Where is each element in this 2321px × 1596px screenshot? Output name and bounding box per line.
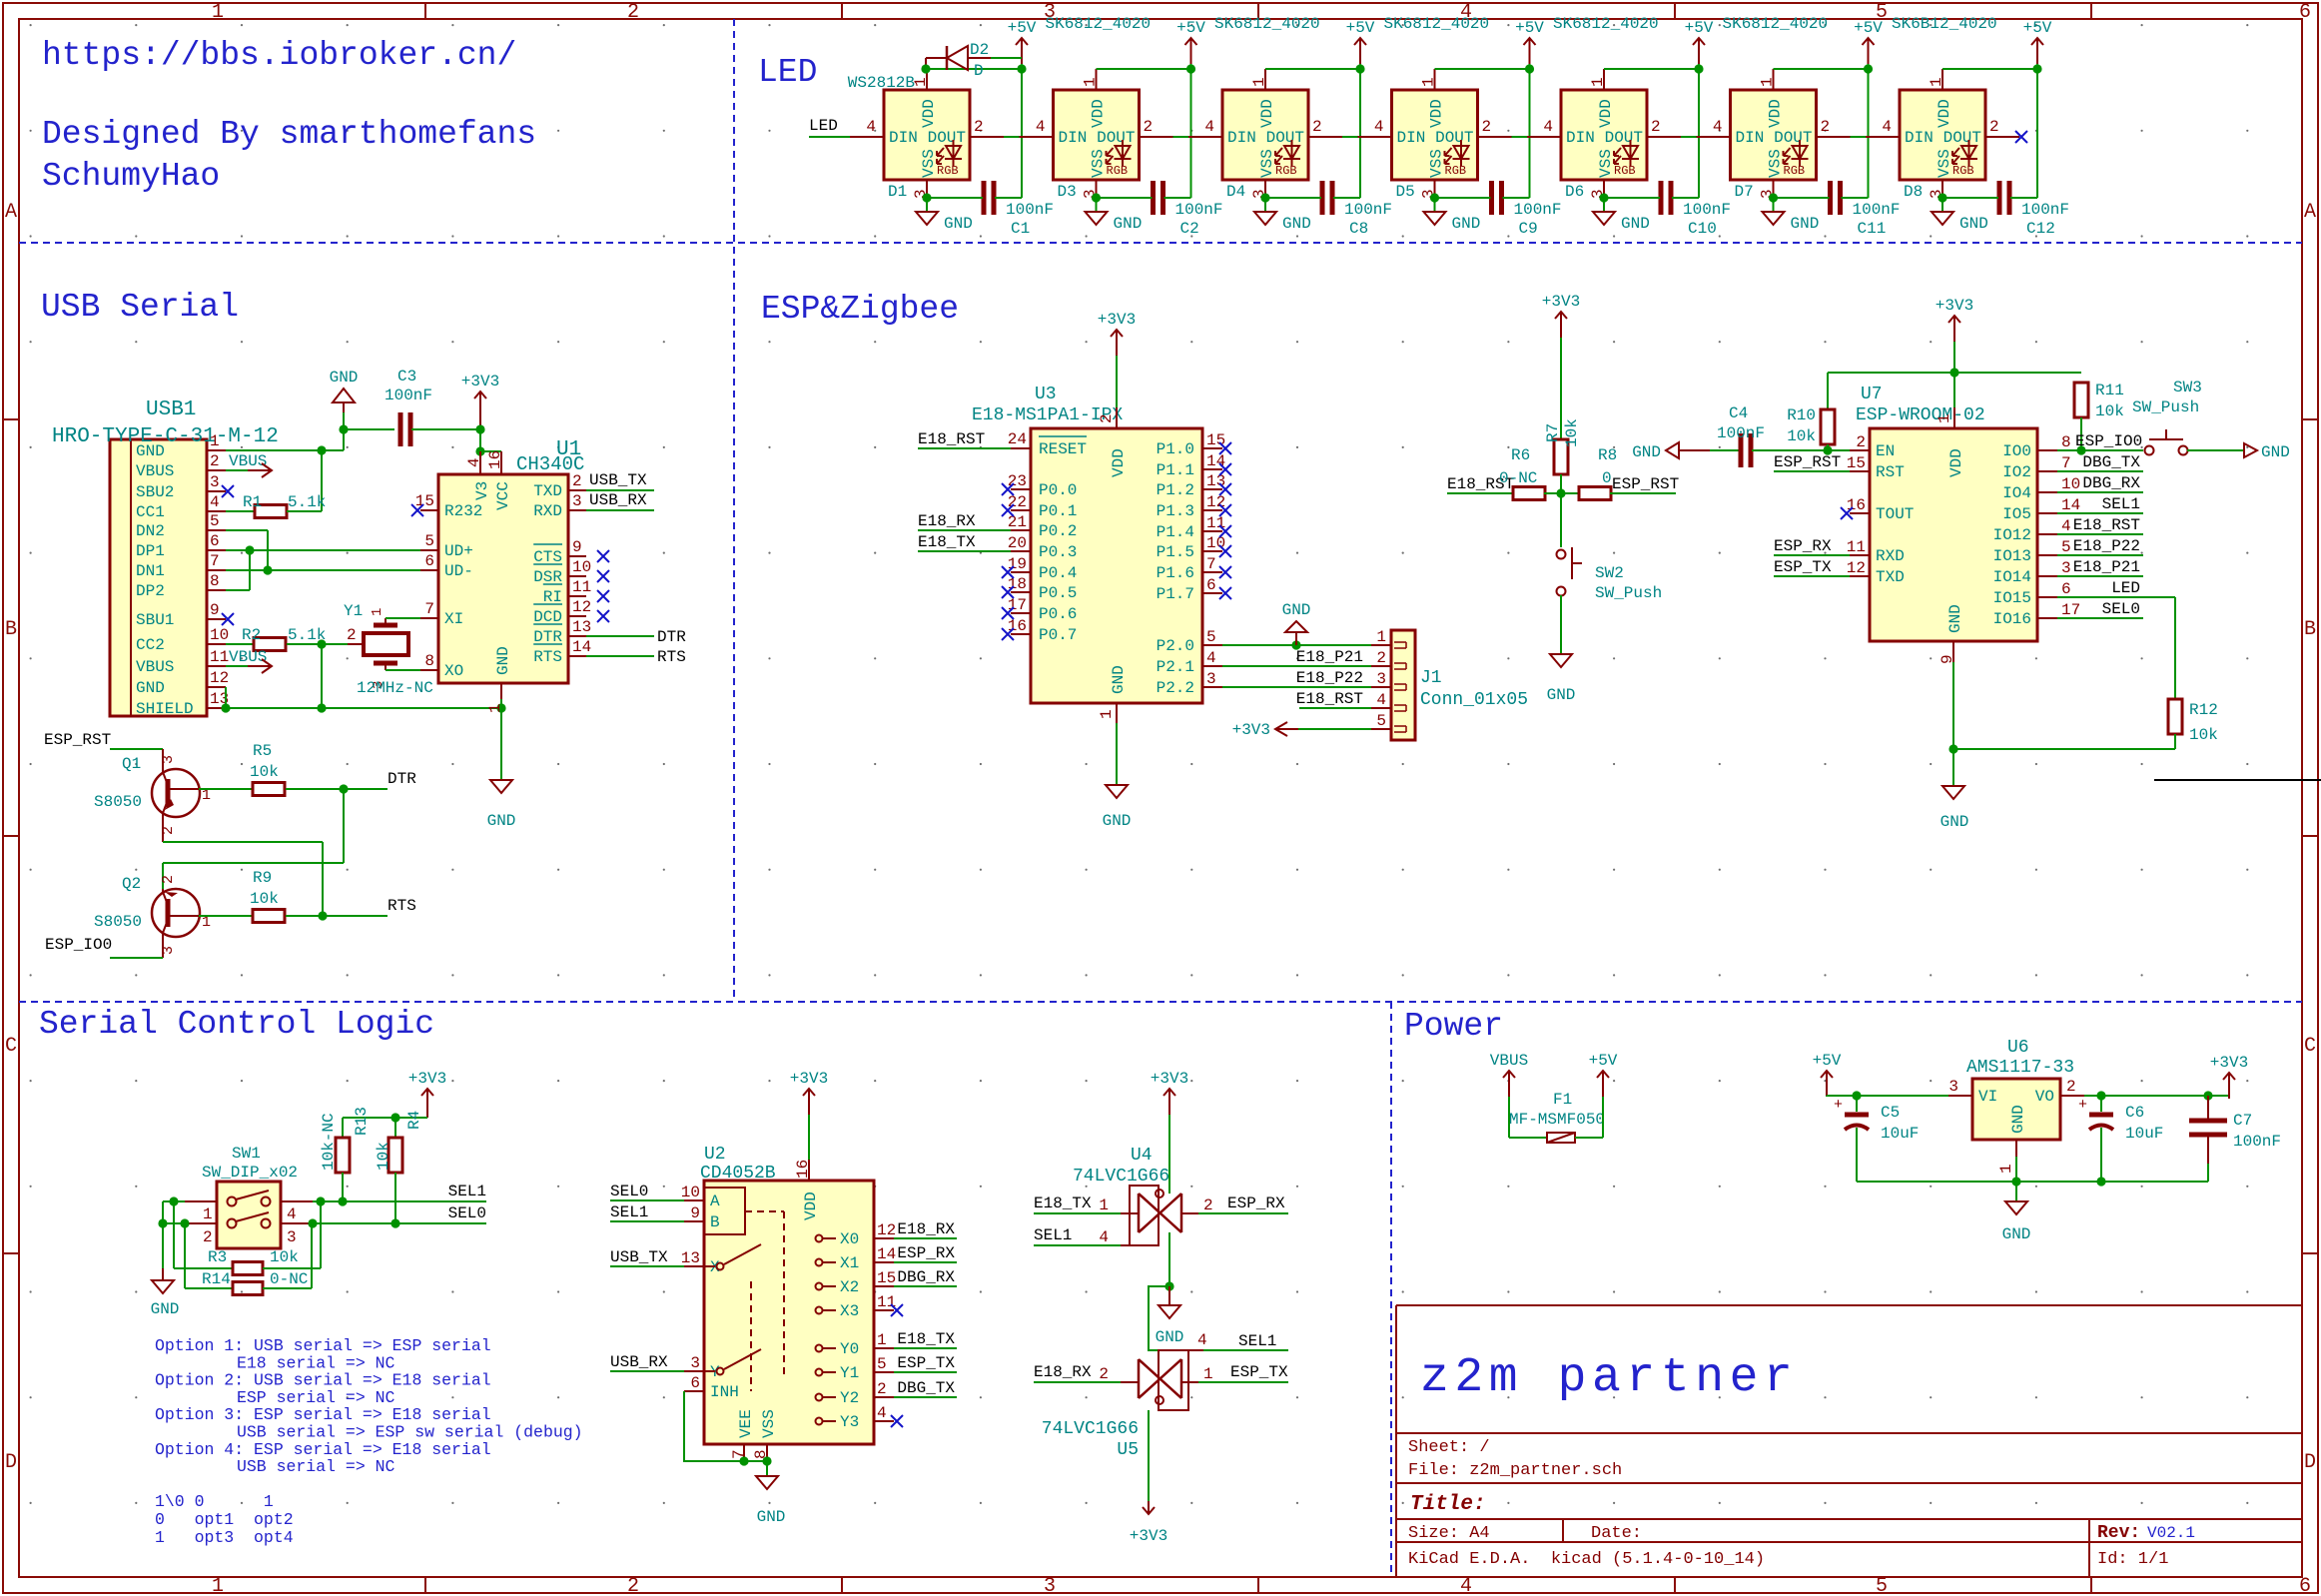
svg-text:VI: VI [1978, 1088, 1997, 1106]
svg-text:R4: R4 [405, 1111, 423, 1130]
svg-text:100nF: 100nF [1853, 201, 1901, 219]
svg-text:100nF: 100nF [1344, 201, 1392, 219]
wire SHIELD/GND net [226, 639, 506, 712]
capacitor C6 10uF [2078, 1096, 2163, 1182]
svg-text:+5V: +5V [1813, 1052, 1842, 1070]
svg-text:GND: GND [1282, 215, 1311, 233]
svg-text:4: 4 [1543, 118, 1553, 136]
svg-text:GND: GND [757, 1508, 786, 1526]
svg-text:DIN: DIN [1905, 129, 1934, 147]
svg-text:+5V: +5V [1008, 19, 1037, 37]
svg-text:E18_RX: E18_RX [1034, 1363, 1092, 1381]
svg-text:VEE: VEE [737, 1409, 755, 1438]
transistor Q2 S8050 [94, 875, 211, 958]
svg-text:6: 6 [2299, 1575, 2311, 1596]
svg-text:SHIELD: SHIELD [136, 700, 194, 718]
svg-text:C2: C2 [1180, 220, 1199, 238]
svg-text:2: 2 [1376, 649, 1386, 667]
svg-text:100nF: 100nF [1717, 424, 1765, 442]
no-connect U1 right y597 [597, 590, 609, 602]
svg-text:7: 7 [424, 600, 434, 618]
net label ESP_TX (U7) [1774, 558, 1850, 576]
svg-text:E18_TX: E18_TX [1034, 1195, 1092, 1212]
svg-text:Y3: Y3 [840, 1413, 859, 1431]
svg-text:DOUT: DOUT [928, 129, 966, 147]
svg-text:SW2: SW2 [1595, 564, 1624, 582]
wire VSS to GND D1 [922, 193, 931, 212]
svg-text:USB_RX: USB_RX [589, 491, 647, 509]
net label E18_RST (U3) [918, 430, 1011, 448]
svg-text:ESP_RX: ESP_RX [1774, 537, 1832, 555]
svg-text:XI: XI [444, 610, 463, 628]
svg-text:R9: R9 [253, 869, 272, 887]
wire P2.2 to J1 pin3 E18_P22 [1222, 669, 1371, 687]
svg-text:VBUS: VBUS [229, 452, 267, 470]
svg-text:KiCad E.D.A. kicad (5.1.4-0-1: KiCad E.D.A. kicad (5.1.4-0-10_14) [1408, 1550, 1765, 1569]
svg-text:E18_RST: E18_RST [918, 430, 985, 448]
power GND symbol top (USB) [330, 369, 359, 412]
svg-text:UD+: UD+ [444, 542, 473, 560]
svg-text:4: 4 [1099, 1228, 1109, 1246]
wire Y1 to XI [386, 617, 420, 619]
svg-text:SK6812_4020: SK6812_4020 [1214, 15, 1320, 33]
IC U4 74LVC1G66 [1073, 1146, 1213, 1246]
svg-text:RGB: RGB [937, 164, 959, 178]
svg-text:IO5: IO5 [2002, 505, 2031, 523]
svg-text:R13: R13 [353, 1107, 371, 1136]
no-connect USB1 SBU2 [222, 485, 234, 497]
power +5V at D3 [1176, 19, 1205, 64]
svg-text:V3: V3 [473, 481, 491, 500]
svg-text:VDD: VDD [1258, 99, 1276, 128]
net label RTS (U1) [586, 648, 686, 666]
svg-text:0: 0 [1602, 469, 1612, 487]
power symbol VBUS (pin2) [226, 452, 272, 477]
svg-text:SchumyHao: SchumyHao [42, 158, 220, 195]
svg-text:SK6812_4020: SK6812_4020 [1553, 15, 1659, 33]
resistor R13 10k-NC [320, 1107, 371, 1201]
LED module D6 (SK6812_4020) [1527, 15, 1681, 201]
svg-text:C1: C1 [1011, 220, 1030, 238]
net label DTR (U1) [586, 628, 686, 646]
svg-text:Option 1: USB serial => ESP se: Option 1: USB serial => ESP serial [155, 1336, 491, 1355]
connector USB1 HRO-TYPE-C-31-M-12 [52, 399, 279, 718]
svg-text:TXD: TXD [1876, 568, 1905, 586]
capacitor C12 100nF [1942, 181, 2069, 238]
svg-text:IO12: IO12 [1993, 526, 2031, 544]
svg-text:11: 11 [572, 578, 591, 596]
net label SEL1 (U5) [1203, 1332, 1288, 1350]
resistor R7 10k (pullup) [1542, 293, 1581, 493]
svg-text:10k: 10k [1563, 418, 1581, 447]
svg-text:1: 1 [1935, 413, 1953, 423]
net label E18_P22 (U7) [2057, 537, 2143, 555]
svg-text:3: 3 [2061, 559, 2071, 577]
svg-text:6: 6 [690, 1374, 700, 1392]
wire P2.1 to J1 pin2 E18_P21 [1222, 648, 1371, 666]
svg-text:ESP_RST: ESP_RST [1612, 475, 1679, 493]
svg-text:VSS: VSS [1090, 149, 1108, 178]
svg-text:12: 12 [1847, 559, 1866, 577]
svg-text:P1.2: P1.2 [1157, 481, 1194, 499]
svg-text:USB_TX: USB_TX [610, 1248, 668, 1266]
svg-text:1: 1 [1082, 77, 1100, 87]
svg-text:9: 9 [210, 601, 220, 619]
net label USB_TX [586, 471, 654, 490]
svg-text:DIN: DIN [1736, 129, 1765, 147]
svg-text:GND: GND [487, 812, 516, 830]
crystal Y1 12MHz-NC [344, 602, 433, 697]
svg-text:13: 13 [681, 1249, 700, 1267]
svg-text:4: 4 [1376, 691, 1386, 709]
svg-text:VBUS: VBUS [1490, 1052, 1528, 1070]
net label E18_RST (J1 pin4) [1296, 690, 1371, 708]
power +5V (U6 input) [1813, 1052, 1948, 1101]
svg-text:1: 1 [370, 608, 386, 616]
svg-text:E18_TX: E18_TX [897, 1330, 955, 1348]
svg-text:USB1: USB1 [146, 399, 196, 421]
title block kicad version row [1408, 1550, 2168, 1569]
svg-text:2: 2 [1856, 433, 1866, 451]
svg-text:5: 5 [424, 532, 434, 550]
svg-text:1: 1 [1997, 1164, 2015, 1174]
svg-text:P1.7: P1.7 [1157, 585, 1194, 603]
svg-text:R14: R14 [202, 1270, 231, 1288]
svg-text:Q1: Q1 [122, 755, 141, 773]
power +5V at D6 [1685, 19, 1714, 64]
svg-text:12MHz-NC: 12MHz-NC [357, 679, 433, 697]
svg-text:+3V3: +3V3 [790, 1070, 828, 1088]
svg-text:4: 4 [1036, 118, 1046, 136]
svg-text:IO13: IO13 [1993, 547, 2031, 565]
svg-text:4: 4 [877, 1404, 887, 1422]
svg-text:P0.2: P0.2 [1039, 522, 1077, 540]
wire U6 output to +3V3 [2084, 1091, 2229, 1100]
svg-text:1: 1 [212, 1575, 224, 1596]
svg-text:C6: C6 [2125, 1104, 2144, 1122]
svg-text:P0.7: P0.7 [1039, 626, 1077, 644]
svg-text:RGB: RGB [1784, 164, 1806, 178]
svg-text:10k: 10k [250, 890, 279, 908]
svg-text:VSS: VSS [1767, 149, 1785, 178]
svg-text:Rev:: Rev: [2097, 1523, 2140, 1543]
svg-text:10: 10 [210, 626, 229, 644]
svg-text:12: 12 [210, 669, 229, 687]
no-connect U1 right y577 [597, 570, 609, 582]
regulator U6 AMS1117-33 [1948, 1038, 2084, 1174]
svg-text:XO: XO [444, 662, 463, 680]
svg-text:ESP_IO0: ESP_IO0 [45, 936, 112, 954]
svg-text:VDD: VDD [1428, 99, 1446, 128]
svg-text:1: 1 [1759, 77, 1777, 87]
svg-text:Conn_01x05: Conn_01x05 [1420, 690, 1528, 710]
net label ESP_RX (U7) [1774, 537, 1850, 555]
net label DTR (Q1) [339, 770, 416, 794]
svg-text:C12: C12 [2026, 220, 2055, 238]
power +5V at D7 [1854, 19, 1883, 64]
net label DBG_TX (U2) [894, 1379, 957, 1397]
svg-text:D: D [974, 62, 984, 80]
power +3V3 above U4 [1151, 1070, 1188, 1194]
svg-text:U2: U2 [704, 1145, 726, 1165]
net label SEL1 (SW1) [313, 1183, 486, 1206]
svg-text:1: 1 [1203, 1365, 1213, 1383]
no-connect U1 R232 [411, 504, 423, 516]
svg-text:3: 3 [1948, 1078, 1958, 1096]
svg-text:DOUT: DOUT [1943, 129, 1981, 147]
svg-text:R10: R10 [1787, 406, 1816, 424]
LED module D3 (SK6812_4020) [1020, 15, 1173, 201]
svg-text:1: 1 [877, 1331, 887, 1349]
net label ESP_TX (U2) [894, 1354, 957, 1372]
svg-text:VDD: VDD [1597, 99, 1615, 128]
svg-text:R8: R8 [1598, 446, 1617, 464]
net label SEL1 (U4) [1034, 1226, 1121, 1245]
svg-text:C: C [5, 1035, 17, 1058]
net label USB_RX [586, 491, 654, 510]
svg-text:E18_P21: E18_P21 [1296, 648, 1363, 666]
svg-text:DIN: DIN [1227, 129, 1256, 147]
power +3V3 below U5 [1130, 1410, 1167, 1545]
wire U4 gnd stem [1149, 1232, 1174, 1350]
svg-text:10k: 10k [270, 1248, 299, 1266]
svg-text:EN: EN [1876, 442, 1895, 460]
capacitor C1 100nF [927, 181, 1054, 238]
wire VDD to +5V rail D6 [1604, 60, 1704, 198]
svg-text:E18_P22: E18_P22 [1296, 669, 1363, 687]
power +3V3 left arrow (J1 pin5) [1232, 721, 1371, 739]
svg-text:https://bbs.iobroker.cn/: https://bbs.iobroker.cn/ [42, 37, 516, 74]
fuse F1 MF-MSMF050 [1509, 1091, 1605, 1143]
svg-text:B: B [710, 1213, 720, 1231]
svg-text:VDD: VDD [920, 99, 938, 128]
svg-text:+5V: +5V [1346, 19, 1375, 37]
svg-text:D1: D1 [888, 183, 907, 201]
svg-text:P0.1: P0.1 [1039, 502, 1077, 520]
svg-text:2: 2 [974, 118, 984, 136]
svg-text:D4: D4 [1226, 183, 1245, 201]
svg-text:+3V3: +3V3 [1935, 297, 1973, 315]
power GND below U2 [756, 1476, 785, 1526]
power GND below U4 [1156, 1286, 1184, 1346]
svg-text:1: 1 [1376, 628, 1386, 646]
svg-text:C7: C7 [2233, 1112, 2252, 1130]
svg-text:P0.0: P0.0 [1039, 481, 1077, 499]
svg-text:VSS: VSS [1935, 149, 1953, 178]
power GND at D3 [1086, 212, 1143, 233]
svg-text:2: 2 [160, 826, 177, 835]
svg-text:15: 15 [415, 492, 434, 510]
svg-text:Y2: Y2 [840, 1389, 859, 1407]
svg-text:SEL1: SEL1 [1238, 1332, 1276, 1350]
svg-text:2: 2 [1821, 118, 1831, 136]
wire SW1 pins to GND [158, 1197, 189, 1288]
wire VSS to GND D6 [1599, 193, 1608, 212]
svg-text:10uF: 10uF [1881, 1125, 1919, 1143]
capacitor C9 100nF [1435, 181, 1562, 238]
title block sheet/file text [1408, 1438, 1622, 1480]
svg-text:5: 5 [2061, 538, 2071, 556]
svg-text:Option 4: ESP serial => E18 se: Option 4: ESP serial => E18 serial [155, 1440, 491, 1459]
wire VSS to GND D3 [1092, 193, 1101, 212]
wire U2 INH/VEE/VSS to GND [684, 1391, 772, 1476]
svg-text:V02.1: V02.1 [2147, 1524, 2195, 1542]
net label LED (U7 IO15) and resistor R12 [2057, 579, 2218, 749]
wire VDD to +5V rail D7 [1774, 60, 1874, 198]
svg-text:1: 1 [210, 432, 220, 450]
svg-text:7: 7 [210, 552, 220, 570]
svg-text:9: 9 [690, 1204, 700, 1222]
svg-text:+3V3: +3V3 [461, 373, 499, 391]
svg-text:RGB: RGB [1614, 164, 1636, 178]
svg-text:4: 4 [1206, 649, 1216, 667]
svg-text:5: 5 [1376, 712, 1386, 730]
svg-text:HRO-TYPE-C-31-M-12: HRO-TYPE-C-31-M-12 [52, 425, 279, 448]
svg-text:Title:: Title: [1410, 1493, 1486, 1516]
svg-text:14: 14 [877, 1245, 896, 1263]
svg-text:DN2: DN2 [136, 522, 165, 540]
svg-text:VO: VO [2035, 1088, 2054, 1106]
svg-text:P1.4: P1.4 [1157, 523, 1194, 541]
net label DBG_RX (U7) [2057, 474, 2143, 492]
svg-text:E18_RST: E18_RST [1296, 690, 1363, 708]
svg-text:F1: F1 [1553, 1091, 1572, 1109]
svg-text:VDD: VDD [1935, 99, 1953, 128]
svg-text:P0.5: P0.5 [1039, 584, 1077, 602]
svg-text:4: 4 [287, 1205, 297, 1223]
svg-text:10k: 10k [2095, 402, 2124, 420]
svg-text:RGB: RGB [1107, 164, 1129, 178]
wire DOUT D6 to next DIN [1681, 136, 1697, 138]
global label GND right (SW3) [2187, 443, 2290, 461]
net label E18_RX (U2) [894, 1220, 957, 1238]
wire U7 GND net [1948, 662, 2175, 786]
svg-text:+5V: +5V [1176, 19, 1205, 37]
svg-text:C11: C11 [1858, 220, 1887, 238]
stray black line right edge [2154, 779, 2321, 781]
wire DTR node to Q2 base [163, 789, 344, 889]
svg-text:DOUT: DOUT [1605, 129, 1643, 147]
IC U1 CH340C [415, 438, 591, 713]
capacitor C10 100nF [1604, 181, 1731, 238]
svg-text:ESP&Zigbee: ESP&Zigbee [761, 291, 959, 328]
svg-text:DIN: DIN [889, 129, 918, 147]
net label ESP_TX (U5) [1198, 1363, 1288, 1382]
svg-text:E18_RX: E18_RX [897, 1220, 955, 1238]
svg-text:GND: GND [2261, 443, 2290, 461]
svg-text:3: 3 [1206, 670, 1216, 688]
wire DOUT D1 to next DIN [1004, 136, 1020, 138]
svg-text:21: 21 [1008, 513, 1027, 531]
svg-text:P2.1: P2.1 [1157, 658, 1194, 676]
svg-text:VSS: VSS [1597, 149, 1615, 178]
svg-text:GND: GND [1791, 215, 1820, 233]
net label SEL0 (U7 IO16) [2057, 600, 2143, 618]
svg-text:100nF: 100nF [2233, 1133, 2281, 1151]
resistor R11 10k [2074, 382, 2124, 455]
svg-text:SBU2: SBU2 [136, 483, 174, 501]
svg-text:USB_RX: USB_RX [610, 1353, 668, 1371]
net label ESP_IO0 and switch SW3 [2057, 432, 2143, 450]
svg-text:20: 20 [1008, 534, 1027, 552]
svg-text:100nF: 100nF [1514, 201, 1562, 219]
svg-text:SEL0: SEL0 [610, 1183, 648, 1200]
svg-text:E18_P22: E18_P22 [2073, 537, 2140, 555]
svg-text:+3V3: +3V3 [1130, 1527, 1167, 1545]
power +5V at D1 [1008, 19, 1037, 64]
no-connects U3 P1 [1219, 442, 1231, 599]
power GND at D1 [916, 212, 973, 233]
wire VSS to GND D8 [1937, 193, 1946, 212]
svg-text:P2.0: P2.0 [1157, 637, 1194, 655]
svg-text:ESP_RX: ESP_RX [897, 1244, 955, 1262]
svg-text:10k: 10k [2189, 726, 2218, 744]
svg-text:X3: X3 [840, 1302, 859, 1320]
svg-text:E18 serial => NC: E18 serial => NC [237, 1353, 395, 1372]
svg-text:1: 1 [1099, 1197, 1109, 1214]
svg-text:D7: D7 [1735, 183, 1754, 201]
svg-text:E18_RX: E18_RX [918, 512, 976, 530]
title block size/date row [1408, 1524, 1642, 1543]
wire GND12 to shield [221, 687, 230, 713]
svg-text:ESP serial => NC: ESP serial => NC [237, 1388, 395, 1407]
net label E18_RX (U5) [1034, 1363, 1121, 1382]
svg-text:4: 4 [1204, 118, 1214, 136]
wire +3V3 to U1 V3/VCC pins [475, 424, 501, 455]
svg-text:R232: R232 [444, 502, 482, 520]
svg-text:3: 3 [690, 1354, 700, 1372]
svg-text:+3V3: +3V3 [1542, 293, 1580, 311]
svg-text:D: D [5, 1451, 17, 1474]
IC U5 74LVC1G66 [1042, 1331, 1213, 1460]
net label USB_TX (U2) [610, 1248, 684, 1266]
svg-text:2: 2 [1651, 118, 1661, 136]
svg-text:VDD: VDD [802, 1192, 820, 1220]
power GND (U6) [2002, 1201, 2031, 1243]
svg-text:RXD: RXD [1876, 547, 1905, 565]
svg-text:RGB: RGB [1952, 164, 1974, 178]
svg-text:15: 15 [1847, 454, 1866, 472]
capacitor C11 100nF [1774, 181, 1901, 238]
svg-text:1: 1 [1250, 77, 1268, 87]
svg-text:RTS: RTS [387, 897, 416, 915]
svg-text:5: 5 [210, 512, 220, 530]
svg-text:2: 2 [1144, 118, 1154, 136]
no-connect U7 TOUT [1841, 507, 1853, 519]
svg-text:GND: GND [151, 1300, 180, 1318]
svg-text:Y1: Y1 [840, 1364, 859, 1382]
svg-text:+3V3: +3V3 [1151, 1070, 1188, 1088]
svg-text:MF-MSMF050: MF-MSMF050 [1509, 1111, 1605, 1129]
svg-text:RST: RST [1876, 463, 1905, 481]
svg-text:4: 4 [2061, 517, 2071, 535]
svg-text:S8050: S8050 [94, 793, 142, 811]
svg-text:S8050: S8050 [94, 913, 142, 931]
svg-text:Designed By smarthomefans: Designed By smarthomefans [42, 116, 536, 153]
wire VDD to +5V rail D1 [927, 60, 1027, 198]
net label ESP_RST (Q1) [44, 731, 163, 749]
svg-text:VCC: VCC [494, 481, 512, 510]
svg-text:24: 24 [1008, 430, 1027, 448]
svg-text:R3: R3 [208, 1248, 227, 1266]
svg-text:4: 4 [1374, 118, 1384, 136]
wire Y1 to XO [386, 669, 420, 671]
svg-text:1: 1 [1589, 77, 1607, 87]
svg-text:74LVC1G66: 74LVC1G66 [1073, 1167, 1169, 1187]
svg-text:IO4: IO4 [2002, 484, 2031, 502]
svg-text:IO16: IO16 [1993, 610, 2031, 628]
svg-text:7: 7 [2061, 454, 2071, 472]
